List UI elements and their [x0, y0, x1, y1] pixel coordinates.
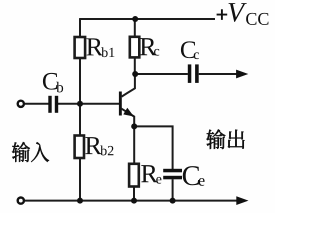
label Ce: e subscript	[199, 178, 205, 186]
label Vcc: CC subscript	[246, 13, 256, 25]
capacitor Cb plates	[48, 96, 51, 113]
wire: Rc branch from rail to Rc top	[134, 19, 136, 37]
label Rc: c subscript	[154, 49, 159, 56]
resistor Re	[129, 164, 139, 187]
wire: collector node to Cc left plate (output line)	[135, 73, 188, 75]
wire: Rb1 branch from rail to Rb1 top	[79, 18, 81, 37]
label Cb: b subscript	[56, 82, 63, 93]
transistor Q1 emitter lead	[121, 108, 134, 126]
capacitor Cc plates	[188, 64, 192, 83]
label Rb1: b1 subscript	[101, 47, 107, 57]
resistor Rb2	[75, 136, 84, 159]
label Rb1: R	[86, 38, 103, 55]
transistor Q1 base bar	[119, 92, 122, 116]
label 输入 (input) char 入	[31, 142, 49, 162]
label Rc: R	[140, 38, 157, 55]
label Re: R	[141, 165, 158, 182]
label Ce: C	[183, 166, 199, 185]
node: emitter / Re / Ce junction	[131, 123, 137, 129]
node: Rb2 / ground rail junction	[77, 198, 83, 204]
transistor Q1 collector lead	[122, 75, 135, 97]
wire: Rb1 bottom to base node to Rb2 top, and Rb2 bottom to ground rail	[79, 58, 81, 201]
label Rb2: b2 subscript	[100, 145, 106, 155]
resistor Rc	[130, 37, 140, 58]
label +Vcc plus sign	[217, 9, 228, 20]
transistor Q1 emitter arrow	[123, 108, 134, 117]
label Cc: C	[181, 41, 195, 58]
node: top rail / Rc junction	[132, 16, 138, 22]
resistor Rb1	[75, 37, 86, 58]
wire: Cc right plate to output arrow	[199, 73, 238, 75]
label Vcc: V	[228, 3, 246, 22]
wire: bottom ground rail	[25, 200, 238, 202]
node: base / Rb1-Rb2 junction	[77, 101, 83, 107]
node: collector / Rc / output junction	[132, 71, 138, 77]
input terminal (bottom)	[18, 198, 24, 204]
wire: Cb right plate to transistor base	[58, 103, 119, 105]
label Cb: C	[43, 73, 57, 90]
label Rb2: R	[85, 137, 102, 154]
capacitor Ce plates	[163, 169, 182, 173]
label 输入 (input) char 输	[12, 142, 30, 162]
wire: emitter node to Ce top plate (right then down)	[134, 126, 172, 169]
label 输出 (output) char 输	[206, 129, 225, 149]
output arrow (top)	[236, 70, 248, 79]
wire: Re bottom to ground rail	[133, 186, 135, 201]
wire: emitter node to Re top	[133, 126, 135, 164]
input terminal (top)	[18, 101, 24, 107]
wire: Rc bottom to collector node	[134, 57, 136, 74]
wire: input terminal to Cb left plate	[25, 103, 49, 105]
wire: Ce bottom plate to ground rail	[172, 179, 174, 200]
output arrow (bottom)	[236, 196, 248, 205]
label 输出 (output) char 出	[228, 130, 245, 149]
label Cc: c subscript	[194, 52, 199, 59]
label Re: e subscript	[156, 177, 161, 184]
node: Ce / ground rail junction	[170, 198, 176, 204]
wire: +Vcc top rail	[80, 18, 215, 20]
node: Re / ground rail junction	[131, 198, 137, 204]
